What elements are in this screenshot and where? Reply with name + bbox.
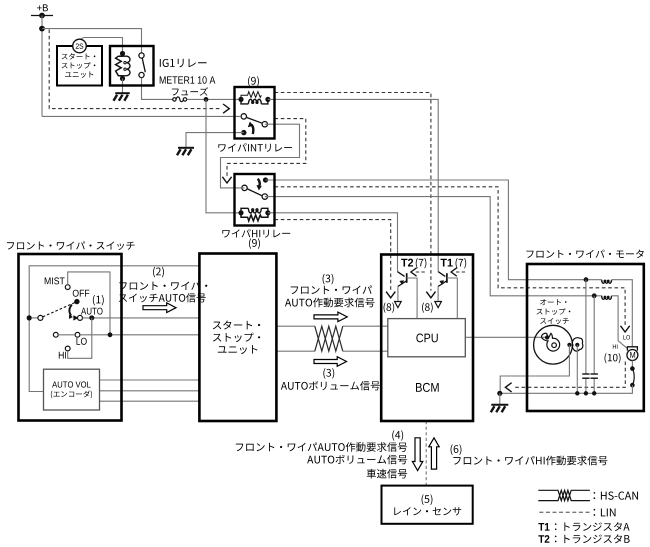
label T1 — [441, 259, 453, 267]
label (9) below HI relay — [249, 238, 260, 249]
wire LIN HI coil to BCM (dashed) — [275, 220, 391, 291]
auto-stop switch cam plate circle — [534, 325, 573, 364]
wire fuse to INT relay coil — [187, 98, 240, 100]
wire LIN INT switch to HI relay (dashed) — [227, 119, 306, 177]
label M — [630, 352, 635, 358]
label front wiper AUTO request signal — [236, 442, 407, 452]
legend T1 text — [538, 523, 549, 531]
relay HI coil right node — [265, 210, 270, 215]
label front wiper switch AUTO signal line2 — [119, 293, 206, 302]
wire encoder output 3 — [100, 400, 200, 402]
auto-stop brush holder — [572, 338, 582, 351]
label AUTO VOL — [52, 381, 90, 387]
wire INT NC contact to ground — [186, 133, 244, 148]
switch LO contact right — [75, 332, 80, 337]
label front wiper motor — [526, 250, 643, 259]
label fuse katakana — [172, 87, 208, 95]
legend HS-CAN text — [594, 492, 638, 500]
junction dot +B branch — [39, 26, 45, 32]
label T2 — [401, 259, 413, 267]
arrow LIN into HI relay — [222, 177, 231, 183]
arrow LIN toward BCM — [505, 383, 511, 392]
relay IG1 coil top node — [120, 51, 125, 56]
signal arrow (3) upper — [314, 312, 347, 322]
wire INT switch to HI switch — [221, 124, 300, 188]
emitter terminal T2 (open triangle) — [395, 302, 402, 308]
junction dot ground bus 3 — [592, 391, 596, 395]
ground below motor — [491, 405, 509, 413]
label AUTO — [81, 308, 103, 315]
wire AUTO contact to start-stop unit — [83, 317, 200, 319]
signal arrow (2) — [143, 303, 176, 313]
relay HI switch blade — [247, 189, 262, 196]
relay HI coil inductor — [241, 208, 248, 213]
junction dot AUTO output — [89, 315, 94, 320]
signal arrow up (6) — [429, 438, 439, 469]
transistor T1 — [438, 272, 445, 277]
wire encoder output 2 — [100, 390, 200, 392]
wire IG1 switch to fuse — [142, 78, 173, 100]
start-stop unit (top) box — [57, 46, 102, 86]
wire LIN HI relay to motor (dashed) — [275, 187, 626, 325]
label encoder — [51, 390, 92, 398]
label (5) — [422, 494, 433, 505]
relay wiper-HI box — [235, 174, 275, 226]
label wiper HI relay — [222, 229, 290, 238]
wire auto-stop right contact to ground bus — [576, 345, 578, 393]
junction dot motor ground — [497, 391, 502, 396]
label wiper INT relay — [218, 143, 292, 152]
auto-stop brush contact right — [575, 343, 579, 347]
arrow LIN at BCM T2 side — [386, 292, 395, 298]
wire CPU to auto-stop switch — [465, 336, 547, 338]
wire HI coil to BCM T2 collector — [268, 213, 398, 272]
motor commutator node bottom — [630, 383, 635, 388]
wire T2 base to CPU — [407, 278, 417, 319]
wire below motor — [631, 361, 633, 369]
auto-stop cam profile — [542, 333, 560, 351]
label MIST — [45, 277, 65, 284]
junction dot motor line2 — [592, 293, 597, 298]
wire T1 base to CPU — [447, 278, 457, 319]
auto-stop brush contact left — [567, 343, 571, 347]
label LO — [76, 338, 86, 345]
wire +B to INT switch contact — [42, 115, 241, 117]
label front wiper AUTO request line2 — [285, 298, 375, 308]
junction dot ground bus 1 — [575, 391, 579, 395]
relay INT switch contact right — [262, 122, 267, 127]
relay IG1 coil bottom node — [120, 76, 125, 81]
label (3) upper — [323, 274, 334, 285]
relay IG1 coil resistor (vertical zigzag) — [116, 56, 123, 76]
motor M circle — [627, 350, 638, 361]
wire 2S to IG1 relay coil — [81, 38, 123, 53]
wire MIST to output — [68, 272, 110, 335]
ground below IG1 relay — [114, 93, 130, 101]
motor commutator link — [632, 369, 634, 386]
relay IG1 coil inductor (vertical arcs) — [123, 56, 131, 76]
wire LIN INT coil to BCM (dashed) — [275, 93, 431, 291]
wire inductor2 to motor brush — [612, 296, 627, 348]
relay wiper-INT box — [235, 87, 275, 139]
switch HI contact — [65, 346, 70, 351]
label BCM — [416, 383, 439, 392]
start-stop unit (top) label — [62, 53, 96, 59]
HS-CAN bus twisted pair — [277, 325, 315, 327]
front wiper switch box — [19, 254, 122, 421]
switch rotor pivot contact — [38, 315, 43, 320]
switch rotor dashed arm — [43, 303, 75, 317]
legend LIN dashed line — [539, 511, 590, 513]
signal arrow (3) lower — [314, 357, 347, 367]
wire LIN BCM to rain sensor (dashed) — [425, 421, 427, 486]
wire motor ground drop — [499, 393, 501, 404]
label METER1 10A fuse — [160, 76, 216, 83]
relay INT coil right node — [265, 97, 270, 102]
relay INT switch actuate arrow — [252, 125, 254, 134]
junction dot fuse line — [204, 97, 209, 102]
wire T2 emitter — [397, 286, 399, 301]
label CPU — [416, 334, 437, 343]
relay IG1 switch contact bottom — [139, 72, 144, 77]
relay INT switch blade — [247, 118, 262, 124]
relay HI switch common node — [263, 177, 268, 182]
label (6) — [451, 444, 462, 455]
wire common to rotor pivot — [31, 317, 38, 319]
label (9) above INT relay — [248, 76, 259, 87]
wire HI common to motor LO winding — [266, 180, 602, 280]
wire LIN motor to BCM (dashed) — [514, 362, 626, 388]
wire INT coil to BCM T1 collector — [268, 99, 438, 271]
relay INT coil resistor — [241, 92, 261, 100]
relay IG1 box — [110, 46, 154, 86]
LIN arrow at T2 base (dashed) — [415, 271, 425, 273]
label LO at motor — [623, 335, 630, 339]
rain sensor box — [382, 486, 473, 524]
auto-stop cam contact node — [545, 335, 549, 339]
label HI at motor — [613, 344, 618, 348]
legend T2 text — [538, 535, 549, 543]
node +B terminal tick — [31, 15, 53, 17]
relay INT coil left node — [238, 97, 243, 102]
transistor T2 — [398, 272, 405, 277]
relay HI coil left node — [238, 210, 243, 215]
label HI — [59, 352, 66, 359]
capacitor C2 wire — [593, 296, 595, 374]
legend HS-CAN twisted pair symbol — [538, 490, 590, 500]
node +B label — [37, 4, 48, 11]
label front wiper switch — [7, 241, 135, 250]
label front wiper HI request signal — [453, 456, 607, 466]
wire LO to start-stop unit — [80, 334, 199, 336]
capacitor C1 wire — [585, 280, 587, 374]
arrow LIN at BCM T1 side — [426, 292, 435, 298]
wire HI contact to AUTO output — [68, 318, 92, 358]
wire switch common bus (left/top) — [29, 266, 199, 392]
fuse F1 symbol — [173, 98, 176, 101]
relay HI switch actuate arrow — [258, 179, 260, 186]
connector 2S circle — [73, 39, 87, 53]
wire encoder output 1 — [100, 379, 200, 381]
switch OFF position node — [74, 299, 79, 304]
emitter terminal T1 (open triangle) — [435, 302, 442, 308]
capacitor C1 plates — [582, 373, 589, 375]
connector 2S label — [76, 43, 84, 48]
label vehicle speed signal — [367, 469, 408, 479]
relay INT switch NC node — [241, 130, 246, 135]
junction dot ground bus 2 — [584, 391, 588, 395]
wire +B to IG1 relay switch — [42, 29, 142, 53]
arrow LIN at motor LO — [621, 326, 630, 332]
label (1) — [93, 295, 104, 306]
label AUTO volume signal 2 — [307, 455, 407, 465]
arrow into wiper INT relay (LIN) — [223, 104, 229, 113]
junction dot MIST output — [108, 332, 113, 337]
CPU box — [388, 319, 466, 357]
switch AUTO contact — [78, 315, 83, 320]
label (4) — [392, 430, 403, 441]
switch common node — [27, 315, 32, 320]
label (7) for T1 — [456, 258, 467, 268]
BCM box — [381, 255, 473, 422]
motor commutator node top — [630, 366, 635, 371]
wire inductor1 to motor brush — [612, 280, 633, 347]
motor M brush cap — [627, 347, 637, 351]
relay IG1 switch contact top — [139, 53, 144, 58]
junction dot motor line1 — [584, 277, 589, 282]
label start-stop unit — [213, 320, 260, 329]
switch LO contact left — [53, 332, 58, 337]
relay INT coil inductor — [241, 99, 248, 104]
junction dot at +B — [39, 13, 45, 19]
wire fuse junction to HI relay coil — [206, 99, 240, 212]
relay HI switch contact left — [242, 185, 247, 190]
wire HI NC contact to motor HI winding — [265, 197, 602, 296]
wire +B vertical down left side — [41, 16, 43, 117]
ground below INT relay — [177, 148, 194, 156]
start-stop unit box — [199, 254, 276, 422]
relay HI switch contact right — [262, 194, 267, 199]
label (3) lower — [323, 368, 334, 379]
label AUTO volume signal — [281, 381, 380, 390]
label auto-stop switch — [540, 299, 566, 305]
signal arrow down (4) — [412, 438, 422, 471]
label (10) — [605, 353, 621, 363]
switch rotor arrow to AUTO — [69, 305, 72, 316]
wire between LO contacts — [58, 334, 75, 336]
wire IG1 coil to ground — [122, 79, 124, 94]
wire T1 emitter — [437, 286, 439, 301]
label front wiper switch AUTO signal line1 — [119, 281, 207, 290]
capacitor C2 plates — [591, 373, 598, 375]
label (8) left — [384, 302, 395, 312]
label (8) right — [422, 302, 433, 312]
relay INT switch contact left — [241, 114, 246, 119]
inductor motor noise filter 1 — [602, 280, 612, 284]
wire LIN dashed from +B branch — [49, 30, 220, 109]
wire motor to ground bus — [500, 385, 633, 393]
label OFF — [73, 290, 90, 297]
switch MIST contact — [65, 285, 70, 290]
encoder AUTO VOL box — [44, 369, 100, 410]
relay HI coil resistor — [241, 213, 268, 221]
label (2) — [153, 267, 164, 278]
inductor motor noise filter 2 — [602, 296, 612, 300]
legend LIN text — [594, 508, 616, 516]
label rain sensor — [394, 507, 461, 515]
front wiper motor box — [527, 264, 644, 411]
relay IG1 switch blade — [142, 58, 145, 72]
label IG1 relay — [160, 59, 207, 68]
LIN arrow at T1 base (dashed) — [456, 271, 466, 273]
label front wiper AUTO request line1 — [291, 285, 372, 294]
wire auto-stop left contact to ground — [500, 345, 569, 393]
label (7) for T2 — [416, 258, 427, 268]
